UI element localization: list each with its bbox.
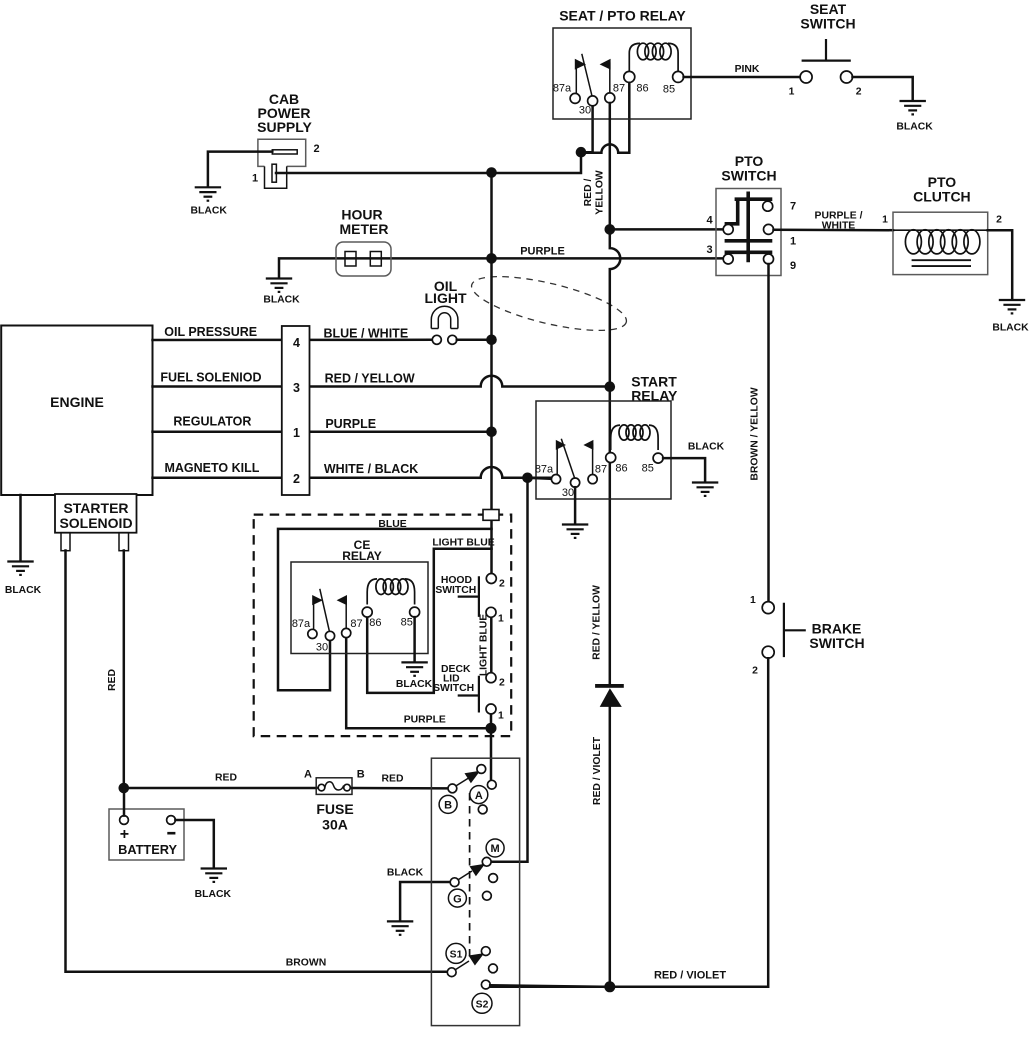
hood switch terminal 1	[486, 607, 496, 617]
ground hour meter	[266, 279, 292, 292]
svg-text:METER: METER	[340, 221, 389, 237]
seat switch label	[800, 1, 855, 32]
wire fuel soleniod row with hop	[153, 376, 610, 387]
svg-text:PINK: PINK	[735, 64, 760, 75]
svg-text:LIGHT: LIGHT	[425, 290, 467, 306]
svg-text:30: 30	[579, 105, 591, 117]
cab power supply label	[257, 91, 312, 135]
key switch label B	[439, 795, 457, 813]
svg-text:SUPPLY: SUPPLY	[257, 119, 312, 135]
start relay box	[536, 401, 671, 499]
start relay title	[631, 373, 678, 403]
svg-text:BROWN: BROWN	[286, 958, 326, 969]
node main line regulator row	[486, 427, 497, 438]
svg-text:S1: S1	[450, 949, 463, 960]
wire S2 to red violet junction	[490, 985, 610, 987]
start relay 85 terminal	[653, 453, 663, 463]
wire seat relay 86 branch with hop	[581, 82, 629, 152]
wire blue ce relay 30	[278, 529, 492, 690]
pto clutch title	[913, 174, 971, 205]
seat pto relay 87 terminal	[600, 59, 615, 103]
ce relay 30 contact arm	[320, 589, 335, 641]
battery junction node	[119, 783, 130, 794]
svg-text:1: 1	[789, 87, 795, 98]
key switch pole B arm	[456, 771, 480, 786]
svg-text:MAGNETO KILL: MAGNETO KILL	[164, 461, 259, 475]
ground ce relay 85	[401, 662, 427, 675]
wire ce relay 85 to ground	[413, 617, 416, 661]
cab power supply pin 2 blade	[272, 150, 297, 154]
svg-text:30: 30	[316, 642, 328, 654]
svg-text:86: 86	[636, 83, 648, 95]
svg-text:BATTERY: BATTERY	[118, 842, 177, 857]
svg-text:M: M	[491, 843, 500, 855]
pto switch box	[716, 189, 781, 276]
svg-text:87a: 87a	[535, 464, 554, 476]
svg-text:9: 9	[790, 260, 796, 272]
ground battery	[201, 869, 227, 882]
wire red starter solenoid to battery junction	[123, 551, 126, 789]
key switch spare contact bottom	[489, 964, 498, 973]
svg-text:BLACK: BLACK	[387, 868, 424, 879]
starter solenoid label	[59, 500, 132, 531]
deck lid switch terminal 2	[486, 673, 496, 683]
diode D1	[595, 684, 624, 707]
starter solenoid terminal left	[61, 533, 70, 551]
wire light blue ce relay 86	[367, 549, 491, 693]
pto switch title	[721, 153, 776, 184]
seat pto relay coil	[629, 43, 678, 71]
svg-text:PURPLE: PURPLE	[404, 715, 446, 726]
ce relay 86 terminal	[362, 607, 372, 617]
engine box	[1, 326, 152, 496]
wire engine ground	[19, 495, 22, 561]
pto clutch coil	[893, 230, 988, 254]
wire battery plus	[123, 788, 126, 816]
wire pto clutch 2 to ground	[988, 230, 1013, 299]
node red yellow start relay	[605, 381, 616, 392]
wire start relay 30 to ground	[574, 487, 577, 523]
hour meter contact right	[370, 252, 381, 267]
wire pto switch 9 to brake switch	[767, 264, 770, 602]
starter solenoid terminal right	[119, 533, 129, 551]
seat pto relay 30 contact arm	[582, 54, 598, 106]
node main line top	[486, 167, 497, 178]
hood switch actuator	[458, 576, 479, 617]
svg-text:BLACK: BLACK	[992, 323, 1029, 334]
svg-text:STARTER: STARTER	[63, 500, 128, 516]
node junction seat relay feed	[576, 147, 587, 158]
svg-text:1: 1	[790, 236, 796, 248]
pto switch terminal 3	[723, 254, 733, 264]
wire magneto kill row with hop	[153, 467, 552, 478]
seat pto relay 87a terminal	[570, 59, 586, 104]
svg-text:RED /: RED /	[583, 179, 594, 207]
svg-text:WHITE: WHITE	[822, 221, 856, 232]
brake switch terminal 2	[762, 646, 774, 658]
wire red fuse to key switch B	[352, 787, 448, 790]
wire brake switch 2 to red violet run	[490, 658, 768, 987]
seat pto relay box	[553, 28, 691, 119]
svg-text:30A: 30A	[322, 817, 348, 833]
svg-text:B: B	[357, 769, 365, 781]
svg-text:87a: 87a	[292, 618, 311, 630]
svg-text:1: 1	[750, 595, 756, 606]
main purple vertical line	[490, 173, 493, 574]
svg-text:SWITCH: SWITCH	[809, 635, 864, 651]
ce relay coil	[367, 579, 414, 605]
svg-text:SOLENOID: SOLENOID	[59, 515, 132, 531]
svg-text:2: 2	[293, 472, 300, 486]
key switch gang dashed link	[469, 793, 471, 958]
svg-text:4: 4	[293, 336, 300, 350]
ground seat switch	[900, 101, 926, 114]
wire red battery to fuse	[124, 787, 316, 790]
hour meter label	[340, 207, 389, 238]
svg-text:RELAY: RELAY	[342, 549, 382, 563]
svg-text:SWITCH: SWITCH	[800, 16, 855, 32]
start relay 86 terminal	[606, 453, 616, 463]
oil light lamp symbol	[431, 306, 458, 328]
svg-text:BROWN / YELLOW: BROWN / YELLOW	[750, 387, 761, 481]
key switch pole S arm	[455, 953, 484, 970]
svg-text:3: 3	[293, 381, 300, 395]
svg-text:OIL PRESSURE: OIL PRESSURE	[164, 325, 257, 339]
key switch pole B contact	[448, 784, 457, 793]
wire start relay 85 to ground	[663, 458, 705, 481]
ground cab power supply	[195, 187, 221, 200]
key switch label S1	[446, 943, 466, 963]
pto switch terminal 1	[764, 224, 774, 234]
brake switch terminal 1	[762, 602, 774, 614]
svg-text:RED / VIOLET: RED / VIOLET	[654, 970, 726, 982]
svg-text:86: 86	[369, 617, 381, 629]
svg-text:1: 1	[293, 426, 300, 440]
key switch spare contacts mid	[483, 874, 498, 901]
starter solenoid box	[55, 494, 137, 533]
svg-text:1: 1	[882, 215, 888, 226]
dashed ellipse callout	[467, 265, 631, 341]
svg-text:YELLOW: YELLOW	[594, 170, 605, 215]
wire pink relay 85 to seat switch	[684, 76, 801, 79]
svg-text:1: 1	[498, 614, 504, 625]
key switch pole G contact	[450, 878, 459, 887]
svg-text:RED: RED	[215, 773, 237, 784]
svg-text:2: 2	[996, 215, 1002, 226]
wire cab pin1 to seat relay 30	[276, 105, 593, 173]
dashed interlock module box	[254, 515, 512, 737]
wire white black to start relay 87a	[528, 478, 552, 479]
fuse F1 30A	[316, 778, 352, 795]
wire cab pin2 to ground	[208, 152, 272, 187]
key switch pole S target contact	[481, 947, 490, 956]
seat pto relay 86 terminal	[624, 71, 635, 82]
label PURPLE / WHITE	[815, 211, 863, 232]
svg-text:BLACK: BLACK	[688, 442, 725, 453]
battery minus label	[167, 832, 175, 835]
svg-text:BLUE: BLUE	[378, 519, 406, 530]
ce relay box	[291, 562, 428, 654]
oil light label	[425, 278, 467, 306]
key switch box	[431, 758, 519, 1025]
wire M terminal riser	[491, 478, 528, 862]
svg-text:BLACK: BLACK	[5, 585, 42, 596]
seat switch terminal 2	[841, 71, 853, 83]
oil light terminal left	[432, 335, 441, 344]
wire seat switch 2 to ground	[853, 77, 913, 100]
node main line purple row	[486, 253, 497, 264]
svg-text:RED: RED	[382, 774, 404, 785]
key switch spare contact top	[478, 805, 487, 814]
ce relay 87 terminal	[337, 595, 351, 638]
start relay 87 terminal	[583, 440, 597, 484]
svg-text:2: 2	[752, 666, 758, 677]
svg-text:SWITCH: SWITCH	[435, 585, 476, 596]
svg-text:LIGHT BLUE: LIGHT BLUE	[432, 538, 494, 549]
deck lid switch actuator	[458, 676, 479, 713]
seat switch plunger	[802, 39, 851, 61]
hour meter contact left	[345, 252, 356, 267]
svg-text:BLACK: BLACK	[896, 122, 933, 133]
ground start relay 30	[562, 525, 588, 538]
svg-text:87: 87	[595, 464, 607, 476]
deck lid switch label	[433, 664, 474, 694]
hour meter body	[336, 242, 391, 276]
seat switch terminal 1	[800, 71, 812, 83]
svg-text:30: 30	[562, 487, 574, 499]
ce relay title	[342, 538, 382, 563]
wire battery minus to ground	[175, 820, 213, 867]
wire purple hour meter row	[279, 258, 723, 277]
key switch label A	[470, 786, 488, 804]
seat pto relay 85 terminal	[673, 71, 684, 82]
start relay coil	[611, 425, 658, 450]
svg-text:BLACK: BLACK	[396, 679, 433, 690]
key switch terminal S2	[481, 980, 490, 989]
brake switch label	[809, 621, 864, 652]
svg-text:SEAT / PTO RELAY: SEAT / PTO RELAY	[559, 8, 686, 24]
svg-text:WHITE / BLACK: WHITE / BLACK	[324, 462, 418, 476]
wire oil pressure row	[153, 339, 433, 342]
svg-text:1: 1	[252, 173, 258, 185]
pto clutch box	[893, 212, 988, 274]
svg-text:87: 87	[613, 83, 625, 95]
label FUSE 30A	[316, 801, 353, 833]
svg-text:85: 85	[663, 84, 675, 96]
oil light terminal right	[448, 335, 457, 344]
start relay 87a terminal	[551, 440, 566, 484]
node red yellow pto feed	[605, 224, 616, 235]
svg-text:1: 1	[498, 710, 504, 721]
pto clutch core bars	[912, 260, 971, 266]
wire black key switch G to ground	[400, 882, 450, 920]
battery box	[109, 809, 184, 860]
pto switch rocker mechanism	[725, 192, 773, 263]
svg-text:REGULATOR: REGULATOR	[173, 415, 251, 429]
svg-text:FUEL SOLENIOD: FUEL SOLENIOD	[160, 370, 261, 384]
ce relay 85 terminal	[410, 607, 420, 617]
wire pto switch pin 4 feed	[610, 228, 723, 231]
key switch pole B target contact	[477, 765, 486, 774]
ground start relay 85	[692, 483, 718, 496]
key switch pole S contact	[447, 968, 456, 977]
svg-text:7: 7	[790, 201, 796, 213]
wire purple ce relay 87	[346, 638, 491, 729]
svg-text:2: 2	[499, 678, 505, 689]
wire main line lower segment	[490, 617, 493, 780]
hood switch terminal 2	[486, 574, 496, 584]
svg-text:BLACK: BLACK	[191, 206, 228, 217]
deck lid switch terminal 1	[486, 704, 496, 714]
svg-text:S2: S2	[476, 999, 489, 1010]
svg-text:LIGHT BLUE: LIGHT BLUE	[478, 614, 489, 676]
svg-text:SWITCH: SWITCH	[433, 683, 474, 694]
svg-text:RED / YELLOW: RED / YELLOW	[325, 372, 415, 386]
node purple junction	[486, 723, 497, 734]
svg-text:RED: RED	[107, 669, 118, 691]
svg-text:RED / YELLOW: RED / YELLOW	[591, 585, 602, 660]
wire purple white pto switch 1 to clutch	[774, 229, 894, 232]
wire oil light to main line	[457, 339, 492, 342]
key switch pole G arm	[458, 864, 485, 880]
connector square on main line	[483, 510, 499, 521]
red yellow vertical net	[610, 103, 621, 987]
ground engine	[7, 562, 33, 575]
start relay 30 contact arm	[561, 439, 579, 488]
svg-text:SWITCH: SWITCH	[721, 168, 776, 184]
pto switch terminal 4	[723, 224, 733, 234]
svg-text:85: 85	[642, 463, 654, 475]
svg-text:A: A	[304, 769, 312, 781]
engine connector bar	[282, 326, 310, 495]
key switch terminal M	[482, 857, 491, 866]
svg-text:3: 3	[706, 244, 712, 256]
key switch label S2	[472, 993, 492, 1013]
brake switch actuator bar	[784, 603, 806, 657]
svg-text:RED / VIOLET: RED / VIOLET	[592, 736, 603, 805]
svg-text:A: A	[475, 790, 483, 802]
key switch terminal A	[487, 780, 496, 789]
cab power supply pin 1 blade	[272, 164, 276, 182]
svg-text:B: B	[444, 800, 452, 812]
pto switch terminal 9	[764, 254, 774, 264]
ground key switch G	[387, 921, 413, 934]
svg-text:87a: 87a	[553, 83, 572, 95]
node white black M junction	[522, 473, 533, 484]
cab power supply connector body	[258, 139, 306, 188]
battery negative terminal	[167, 816, 176, 825]
svg-text:85: 85	[401, 617, 413, 629]
key switch label G	[448, 889, 466, 907]
ground pto clutch	[999, 300, 1025, 313]
svg-text:PURPLE: PURPLE	[520, 246, 565, 258]
svg-text:4: 4	[706, 215, 713, 227]
svg-text:87: 87	[350, 618, 362, 630]
ce relay 87a terminal	[308, 595, 323, 639]
battery positive terminal	[120, 816, 129, 825]
label RED / YELLOW vertical top	[583, 170, 606, 215]
svg-text:BLACK: BLACK	[263, 295, 300, 306]
svg-text:CLUTCH: CLUTCH	[913, 189, 971, 205]
svg-text:PURPLE: PURPLE	[325, 417, 376, 431]
svg-text:BLUE / WHITE: BLUE / WHITE	[323, 327, 408, 341]
svg-text:BLACK: BLACK	[195, 889, 232, 900]
wire brown from starter solenoid to key switch S1	[66, 551, 448, 972]
svg-text:ENGINE: ENGINE	[50, 394, 104, 410]
svg-text:86: 86	[615, 463, 627, 475]
hood switch label	[435, 575, 476, 596]
node main line oil light	[486, 335, 497, 346]
node red violet junction	[604, 981, 615, 992]
svg-text:FUSE: FUSE	[316, 801, 353, 817]
svg-text:2: 2	[313, 143, 319, 155]
svg-text:2: 2	[499, 578, 505, 589]
wire regulator row	[153, 431, 492, 434]
svg-text:G: G	[453, 893, 462, 905]
key switch label M	[486, 839, 504, 857]
svg-text:2: 2	[856, 87, 862, 98]
svg-text:+: +	[120, 826, 129, 843]
pto switch terminal 7	[763, 201, 773, 211]
